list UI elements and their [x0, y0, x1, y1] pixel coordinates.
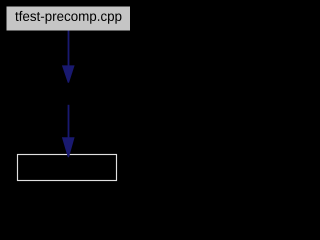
label tfest-precomp.cpp	[15, 11, 121, 24]
node tfest-precomp.cpp (current file, grey filled box)	[7, 7, 131, 31]
edge 2 wire (hidden middle node to bottom node)	[68, 105, 70, 139]
edge 2 arrowhead	[62, 137, 75, 157]
node (bottom, unlabeled box)	[18, 155, 117, 181]
edge 1 wire (tfest-precomp.cpp to hidden middle node)	[68, 31, 70, 67]
edge 1 arrowhead	[62, 65, 75, 82]
